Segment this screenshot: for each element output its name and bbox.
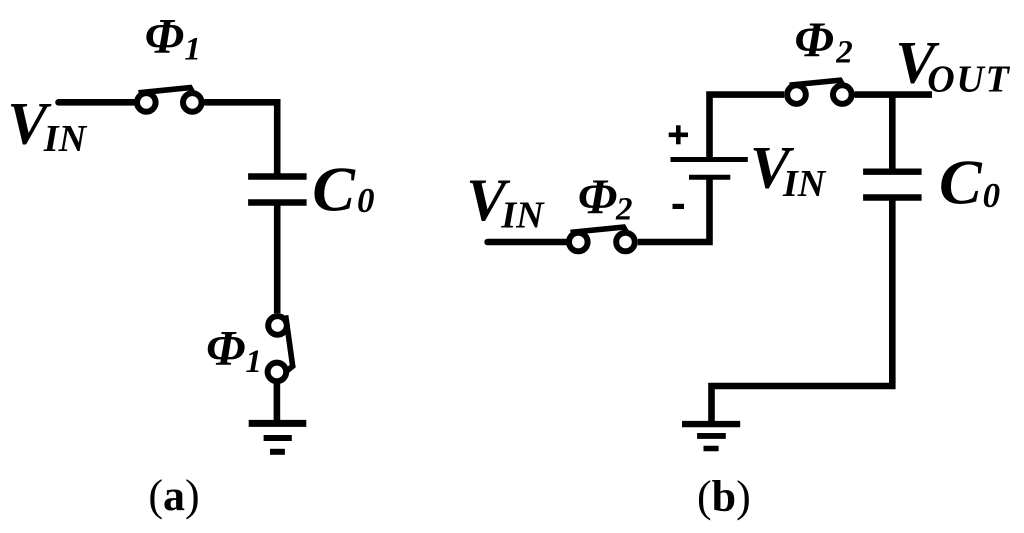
- svg-text:C: C: [939, 147, 983, 218]
- svg-text:Φ: Φ: [794, 11, 833, 67]
- svg-text:2: 2: [835, 34, 853, 70]
- svg-text:1: 1: [184, 32, 201, 68]
- svg-text:1: 1: [245, 344, 262, 380]
- svg-text:(b): (b): [697, 472, 751, 521]
- svg-text:IN: IN: [500, 194, 545, 236]
- svg-text:IN: IN: [782, 163, 827, 205]
- svg-text:Φ: Φ: [206, 320, 245, 376]
- svg-text:Φ: Φ: [145, 8, 184, 64]
- svg-text:OUT: OUT: [927, 58, 1011, 100]
- svg-text:Φ: Φ: [578, 168, 617, 224]
- svg-text:0: 0: [357, 181, 375, 220]
- svg-text:(a): (a): [148, 471, 199, 520]
- svg-text:IN: IN: [43, 118, 88, 160]
- svg-text:C: C: [312, 154, 356, 225]
- svg-text:0: 0: [983, 176, 1001, 215]
- svg-text:2: 2: [615, 192, 633, 228]
